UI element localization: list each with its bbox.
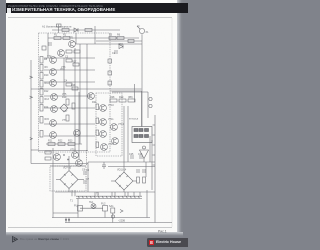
resistor R29 <box>119 99 126 102</box>
footer logo glyph <box>13 237 18 243</box>
resistor R22 <box>58 143 65 146</box>
wire right v2 <box>146 190 148 218</box>
transistor VT1 <box>69 41 76 48</box>
wire secondary taps <box>72 190 140 196</box>
wire mid long2 <box>110 90 142 92</box>
wire shield right <box>147 92 149 118</box>
capacitor C13 <box>108 59 112 63</box>
wire v2 <box>75 33 77 44</box>
transistor VT3 <box>50 69 57 76</box>
resistor R19 <box>66 99 69 105</box>
transistor VT13 <box>101 144 108 151</box>
wire right v3 <box>151 140 153 190</box>
dashed block C (rectifier 1 box) <box>50 166 86 191</box>
schematic drawing <box>0 0 188 250</box>
resistor R25 <box>96 118 99 124</box>
capacitor C9 <box>143 169 145 173</box>
input jack X2 <box>42 46 46 50</box>
wire row A7 <box>44 135 95 137</box>
resistor R31 <box>137 177 140 183</box>
wire feed d2 <box>78 92 80 159</box>
wire col B <box>63 58 65 96</box>
regulator VD15 <box>140 146 149 162</box>
resistor R33 <box>45 151 51 154</box>
connector X1 <box>137 26 145 34</box>
resistor R1 <box>54 37 61 40</box>
resistor R11 <box>40 81 43 88</box>
wire psu left <box>87 162 89 192</box>
resistor R2 <box>63 37 70 40</box>
resistor R32 <box>143 177 146 183</box>
lamp HL1 <box>91 204 96 209</box>
plus mark c6 <box>63 154 65 156</box>
transistor VT16 <box>72 152 79 159</box>
white scanned page <box>6 0 177 232</box>
wire col A <box>79 44 81 144</box>
resistor R8 <box>40 57 43 64</box>
dashed edge ext <box>86 150 88 166</box>
pin tick 4 <box>153 154 156 156</box>
resistor R10 <box>40 73 43 80</box>
transistor VT10 <box>100 105 107 112</box>
wire psu top <box>88 161 155 163</box>
resistor R34 <box>45 157 51 160</box>
transistor VT6 <box>51 106 58 113</box>
wire top row <box>48 37 139 39</box>
wire shield top <box>112 91 148 93</box>
switch SA2 <box>111 208 115 223</box>
lamp HL2 <box>111 215 114 218</box>
fuse FU2 <box>103 206 108 212</box>
wire r3 <box>149 136 151 162</box>
wire driver top <box>39 150 89 152</box>
plug XP1 <box>65 218 70 223</box>
wire to connector <box>76 43 142 45</box>
capacitor C25 <box>131 155 133 159</box>
transistor VT7 <box>50 120 57 127</box>
wire right border bus <box>154 115 156 223</box>
page bottom rule <box>8 227 172 229</box>
wire over bridge1 <box>50 165 86 167</box>
wire top small <box>52 29 120 31</box>
pin tick 5 <box>153 164 156 166</box>
scan right edge <box>171 18 173 227</box>
wire row A1 <box>44 57 95 59</box>
resistor R7 <box>128 40 134 43</box>
wire row A5 <box>44 107 95 109</box>
capacitor C1 <box>49 42 51 46</box>
resistor R20 <box>66 115 69 121</box>
resistor R27 <box>96 142 99 148</box>
capacitor C8 <box>137 169 139 173</box>
capacitor C5 <box>72 103 75 109</box>
transistor VT19 <box>74 130 81 137</box>
node arrow in2 <box>30 96 33 98</box>
wire corner down <box>141 91 143 127</box>
varistor RU1 <box>60 104 68 112</box>
resistor R16 <box>40 131 43 138</box>
wire gnd return <box>31 163 88 165</box>
footer right brand bar <box>147 238 188 247</box>
wire left down <box>52 148 54 218</box>
node arrow in1 <box>30 76 33 78</box>
wire bus2 <box>127 106 129 162</box>
diode VD1 <box>74 28 78 32</box>
capacitor C15 <box>108 81 112 85</box>
transformer T1 core <box>76 196 142 198</box>
transistor VT11 <box>100 119 107 126</box>
capacitor C3 <box>66 59 72 62</box>
capacitor C6 <box>84 171 86 175</box>
wire v3 <box>94 26 96 44</box>
wire bus mid <box>134 84 136 102</box>
switch SA0 <box>57 24 62 33</box>
resistor R14 <box>40 105 43 112</box>
wire row A8 <box>46 143 82 145</box>
wire primary left <box>77 198 79 217</box>
transistor VT18 <box>54 154 61 161</box>
transistor VT9 <box>88 93 95 100</box>
pin tick 1 <box>153 124 156 126</box>
resistor R15 <box>40 117 43 124</box>
wire primary right <box>104 211 106 218</box>
pin tick 2 <box>153 134 156 136</box>
footer left text <box>20 237 69 241</box>
resistor R13 <box>40 97 43 104</box>
wire psu bottom <box>55 191 155 193</box>
wire bridge1 feed <box>68 156 70 170</box>
fuse FU1 <box>78 206 83 212</box>
resistor R17 <box>73 63 79 66</box>
wire right bus down <box>141 34 143 126</box>
capacitor C4 <box>66 83 72 86</box>
capacitor C2 <box>115 50 117 54</box>
site header bar <box>6 3 188 13</box>
transistor VT1b <box>58 50 65 57</box>
pin tick 3 <box>153 144 156 146</box>
diode bridge VDS2 <box>111 172 137 192</box>
transistor VT15 <box>112 138 119 145</box>
resistor R1c <box>66 50 72 53</box>
diode bridge VDS1 <box>56 171 84 193</box>
wire row A2 <box>44 69 95 71</box>
output jack XS2 <box>149 104 152 107</box>
capacitor C7 <box>84 180 86 184</box>
capacitor C27 hanging <box>102 162 106 169</box>
resistor R23 <box>68 143 75 146</box>
wire row A6 <box>44 123 95 125</box>
output jack XS1 <box>149 97 152 100</box>
wire feed d1 <box>74 48 76 151</box>
wire row A4 <box>44 95 92 97</box>
resistor R26 <box>96 130 99 136</box>
transistor VT12 <box>100 131 107 138</box>
node arrow in3 <box>30 138 33 140</box>
dashed block A (preamp board) <box>39 33 111 152</box>
transistor VT5 <box>51 94 58 101</box>
terminal box K1 <box>132 127 152 143</box>
transistor VT8 <box>50 132 57 139</box>
node arrow <box>120 210 123 213</box>
plus mark c7 <box>67 159 69 161</box>
resistor R12 <box>40 89 43 96</box>
footer left logo <box>0 0 188 250</box>
transistor VT4 <box>50 80 57 87</box>
resistor R18 <box>72 87 78 90</box>
resistor R9 <box>40 65 43 72</box>
wire v1 <box>47 33 49 58</box>
resistor R4 <box>85 29 92 32</box>
diode VD2 <box>119 45 123 49</box>
capacitor C26 <box>140 155 142 159</box>
transistor VT14 <box>111 124 118 131</box>
wire r2 <box>145 162 147 177</box>
wire row A3 <box>44 81 95 83</box>
transistor VT17 <box>76 160 83 167</box>
resistor R21 <box>48 143 55 146</box>
resistor R24 <box>96 104 99 110</box>
wire r1 <box>108 166 155 168</box>
resistor R5 <box>109 37 116 40</box>
wire bottom left jog <box>53 212 78 214</box>
wire mains upper <box>52 217 150 219</box>
wire mains lower <box>65 222 172 224</box>
resistor R30 <box>128 99 135 102</box>
resistor R1d <box>74 50 80 53</box>
capacitor C14 <box>108 71 112 75</box>
dashed block B (output stage board) <box>96 93 122 156</box>
wire mid long <box>31 88 142 90</box>
wire input left <box>30 60 32 164</box>
resistor R3 <box>62 29 69 32</box>
transistor VT2 <box>50 57 57 64</box>
resistor R6 <box>117 37 124 40</box>
wire col C <box>86 44 88 151</box>
wire lamp row <box>80 207 103 209</box>
page top rule <box>8 17 172 19</box>
wire bus to bridge2 <box>123 106 125 172</box>
wire mid top <box>96 40 142 42</box>
wire input join <box>31 149 39 151</box>
resistor R28 <box>110 99 117 102</box>
